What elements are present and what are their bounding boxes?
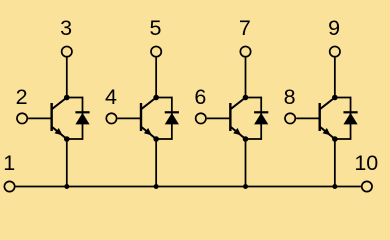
svg-text:9: 9 [328, 16, 340, 40]
pin 3 terminal (collector) [62, 46, 72, 56]
junction collector node [243, 95, 249, 101]
junction emitter rail node [332, 184, 337, 189]
svg-text:8: 8 [284, 85, 296, 109]
diode D1 [75, 112, 89, 124]
wire base lead [296, 117, 320, 119]
pin 10 terminal (common emitter) [362, 181, 372, 191]
pin 2 terminal (base) [17, 113, 27, 123]
svg-text:5: 5 [149, 16, 161, 40]
svg-text:1: 1 [3, 151, 15, 175]
wire diode branch bottom [246, 138, 262, 140]
pin 6 terminal (base) [196, 113, 206, 123]
wire collector lead [66, 58, 68, 98]
pin 8 terminal (base) [285, 113, 295, 123]
wire diode branch bottom [335, 138, 351, 140]
svg-text:10: 10 [354, 151, 378, 175]
diode D3 [254, 112, 268, 124]
wire diode branch top [156, 97, 172, 99]
wire common emitter rail [16, 186, 361, 188]
transistor Q3 [230, 98, 245, 140]
transistor Q4 [320, 98, 335, 140]
wire collector lead [155, 58, 157, 98]
pin 5 terminal (collector) [151, 46, 161, 56]
pin 7 terminal (collector) [240, 46, 250, 56]
pin 9 terminal (collector) [330, 46, 340, 56]
wire diode branch top [67, 97, 83, 99]
junction emitter node [332, 136, 338, 142]
wire base lead [207, 117, 231, 119]
wire base lead [117, 117, 141, 119]
wire diode branch vertical [260, 97, 262, 140]
wire diode branch vertical [171, 97, 173, 140]
wire collector lead [334, 58, 336, 98]
wire emitter to rail [245, 139, 247, 187]
wire collector lead [245, 58, 247, 98]
wire diode branch bottom [67, 138, 83, 140]
wire diode branch bottom [156, 138, 172, 140]
svg-text:6: 6 [194, 85, 206, 109]
wire base lead [28, 117, 52, 119]
pin 4 terminal (base) [106, 113, 116, 123]
junction emitter rail node [64, 184, 69, 189]
junction emitter rail node [154, 184, 159, 189]
svg-text:4: 4 [105, 85, 117, 109]
junction emitter node [243, 136, 249, 142]
junction emitter node [153, 136, 159, 142]
svg-text:7: 7 [239, 16, 251, 40]
wire emitter to rail [334, 139, 336, 187]
junction emitter node [64, 136, 70, 142]
transistor Q1 [52, 98, 67, 140]
junction collector node [64, 95, 70, 101]
wire diode branch top [246, 97, 262, 99]
pin 1 terminal (common emitter) [4, 181, 14, 191]
svg-text:2: 2 [16, 85, 28, 109]
wire emitter to rail [66, 139, 68, 187]
diode D4 [343, 112, 357, 124]
junction collector node [332, 95, 338, 101]
wire emitter to rail [155, 139, 157, 187]
junction collector node [153, 95, 159, 101]
wire diode branch top [335, 97, 351, 99]
wire diode branch vertical [350, 97, 352, 140]
diode D2 [165, 112, 179, 124]
transistor Q2 [141, 98, 156, 140]
wire diode branch vertical [82, 97, 84, 140]
junction emitter rail node [243, 184, 248, 189]
svg-text:3: 3 [60, 16, 72, 40]
